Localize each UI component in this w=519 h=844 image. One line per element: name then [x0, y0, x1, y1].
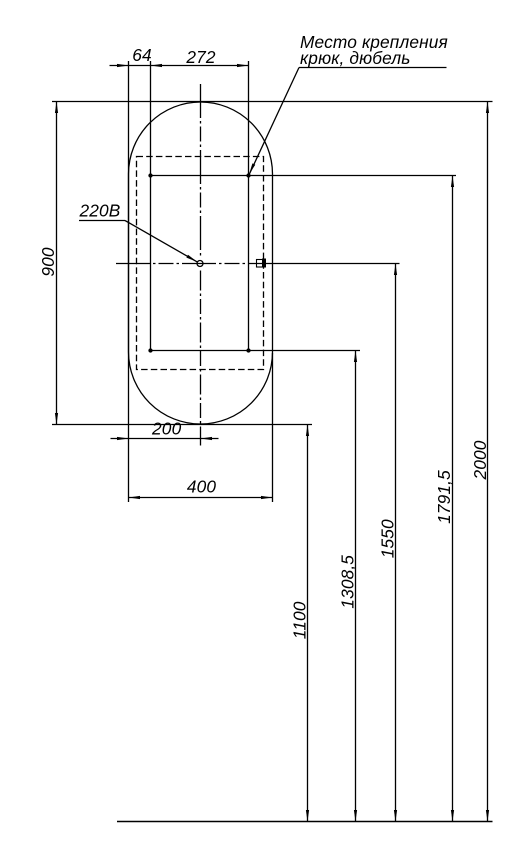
svg-text:2000: 2000: [470, 440, 490, 480]
svg-text:1550: 1550: [377, 519, 397, 558]
svg-text:272: 272: [185, 47, 216, 67]
svg-text:400: 400: [187, 477, 217, 497]
svg-text:900: 900: [38, 247, 58, 277]
svg-text:64: 64: [132, 45, 152, 65]
svg-text:1308,5: 1308,5: [338, 555, 358, 609]
svg-text:1100: 1100: [290, 601, 310, 639]
svg-text:200: 200: [151, 419, 182, 439]
svg-text:220В: 220В: [79, 201, 121, 221]
svg-text:крюк, дюбель: крюк, дюбель: [300, 48, 410, 68]
svg-text:1791,5: 1791,5: [434, 470, 454, 524]
